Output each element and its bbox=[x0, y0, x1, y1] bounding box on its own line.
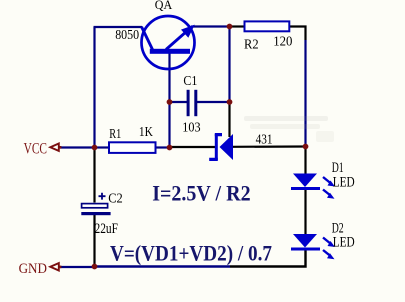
label LED (D2) bbox=[333, 235, 355, 251]
wire: right rail junction to D1 top bbox=[304, 147, 306, 175]
formula V=(VD1+VD2) / 0.7 bbox=[110, 241, 272, 266]
junction dot right rail bbox=[303, 144, 309, 150]
wire: mid vertical from C1 right junction down to 431 diode bbox=[228, 102, 230, 137]
svg-text:8050: 8050 bbox=[115, 28, 139, 43]
transistor Q1 circle (QA 8050) bbox=[142, 16, 195, 69]
capacitor C2 plus sign bbox=[99, 193, 106, 200]
resistor R1 box bbox=[109, 142, 156, 153]
svg-text:LED: LED bbox=[333, 174, 355, 190]
LED D2 cathode bar bbox=[291, 248, 320, 251]
wire: C2 bottom to GND rail bbox=[93, 214, 95, 267]
node VCC terminal arrow bbox=[50, 144, 61, 151]
label D1 bbox=[332, 160, 344, 176]
label VCC bbox=[24, 140, 47, 157]
label LED (D1) bbox=[333, 174, 355, 190]
wire: left rail junction to R1 left bbox=[95, 146, 111, 148]
capacitor C2 top plate (hollow) bbox=[82, 204, 108, 208]
shunt regulator U1 (431) anode triangle bbox=[220, 134, 234, 160]
svg-text:R1: R1 bbox=[109, 127, 121, 142]
wire: right rail upper (down to right junction) bbox=[304, 40, 306, 147]
junction dot R1 right bbox=[167, 145, 173, 151]
svg-text:VCC: VCC bbox=[24, 140, 47, 157]
transistor QA collector lead (to top-left wire) bbox=[142, 27, 153, 50]
wire: bottom rail right section up to D2 bbox=[230, 250, 306, 267]
wire: top junction to R2 left bbox=[230, 25, 246, 27]
capacitor C1 right plate bbox=[194, 90, 197, 116]
label 22uF bbox=[95, 221, 119, 237]
wire: bottom rail left section bbox=[95, 265, 231, 268]
junction dot top rail bbox=[227, 24, 233, 30]
wire: top horizontal from transistor emitter to top junction bbox=[192, 25, 230, 27]
junction dot at VCC rail bbox=[92, 145, 98, 151]
label 8050 bbox=[115, 28, 139, 43]
svg-text:I=2.5V / R2: I=2.5V / R2 bbox=[152, 180, 250, 205]
svg-text:22uF: 22uF bbox=[95, 221, 119, 237]
svg-text:1K: 1K bbox=[139, 125, 153, 140]
shunt regulator U1 (431) cathode bar with bent ends bbox=[209, 133, 222, 161]
label 431 bbox=[256, 133, 273, 148]
capacitor C2 bottom plate (solid) bbox=[81, 212, 110, 215]
svg-text:431: 431 bbox=[256, 133, 273, 148]
wire: VCC terminal to left rail bbox=[60, 146, 95, 148]
label 103 bbox=[182, 121, 200, 136]
capacitor C1 left plate bbox=[187, 90, 190, 116]
svg-text:QA: QA bbox=[155, 0, 172, 12]
label R2 bbox=[244, 38, 259, 53]
svg-text:103: 103 bbox=[182, 121, 200, 136]
svg-text:R2: R2 bbox=[244, 38, 259, 53]
junction dot at GND rail bbox=[92, 264, 98, 270]
LED D2 emission arrows bbox=[323, 238, 335, 260]
svg-text:C1: C1 bbox=[183, 74, 197, 89]
wire: left rail lower through C2 (VCC junction to C2 top) bbox=[93, 148, 95, 203]
wire: top-left horizontal to transistor collector bbox=[94, 26, 143, 28]
wire: R1 junction to 431 cathode bbox=[170, 146, 216, 148]
junction dot C1 left bbox=[167, 99, 173, 105]
node GND terminal arrow bbox=[50, 263, 61, 270]
label C2 bbox=[108, 192, 123, 207]
wire: GND terminal to left rail bottom junction bbox=[60, 266, 95, 268]
svg-text:C2: C2 bbox=[108, 192, 123, 207]
formula I=2.5V / R2 bbox=[152, 180, 250, 205]
wire: 431 anode to right rail junction bbox=[233, 145, 306, 148]
svg-text:GND: GND bbox=[19, 261, 48, 277]
LED D1 cathode bar bbox=[291, 187, 320, 190]
label 120 bbox=[273, 35, 292, 50]
wire: mid vertical from top junction to C1 right junction bbox=[228, 27, 230, 103]
label R1 bbox=[109, 127, 121, 142]
wire: transistor down lead through C1 left junction to R1 junction bbox=[168, 53, 170, 148]
junction dot C1 right bbox=[227, 99, 233, 105]
LED D2 triangle bbox=[293, 234, 317, 248]
transistor QA emitter lead with arrow (to top-right wire) bbox=[166, 25, 195, 50]
svg-text:120: 120 bbox=[273, 35, 292, 50]
label D2 bbox=[332, 221, 344, 237]
transistor QA base bar bbox=[150, 49, 190, 54]
resistor R2 box bbox=[245, 21, 290, 31]
wire: R1 right to transistor-lead junction bbox=[154, 146, 170, 148]
label 1K bbox=[139, 125, 153, 140]
LED D1 emission arrows bbox=[323, 177, 335, 199]
wire: left rail upper (VCC junction up to top-left corner) bbox=[93, 27, 95, 148]
wire: C1 left stub bbox=[170, 101, 188, 103]
label GND bbox=[19, 261, 48, 277]
wire: D1 bottom to D2 top bbox=[304, 189, 306, 234]
wire: R2 right to top-right corner and down bbox=[289, 27, 306, 41]
label C1 bbox=[183, 74, 197, 89]
wire: C1 right stub bbox=[196, 101, 230, 103]
svg-text:LED: LED bbox=[333, 235, 355, 251]
LED D1 triangle bbox=[293, 174, 317, 188]
watermark smudge bbox=[244, 116, 334, 142]
svg-text:V=(VD1+VD2) / 0.7: V=(VD1+VD2) / 0.7 bbox=[110, 241, 272, 266]
label QA bbox=[155, 0, 172, 12]
